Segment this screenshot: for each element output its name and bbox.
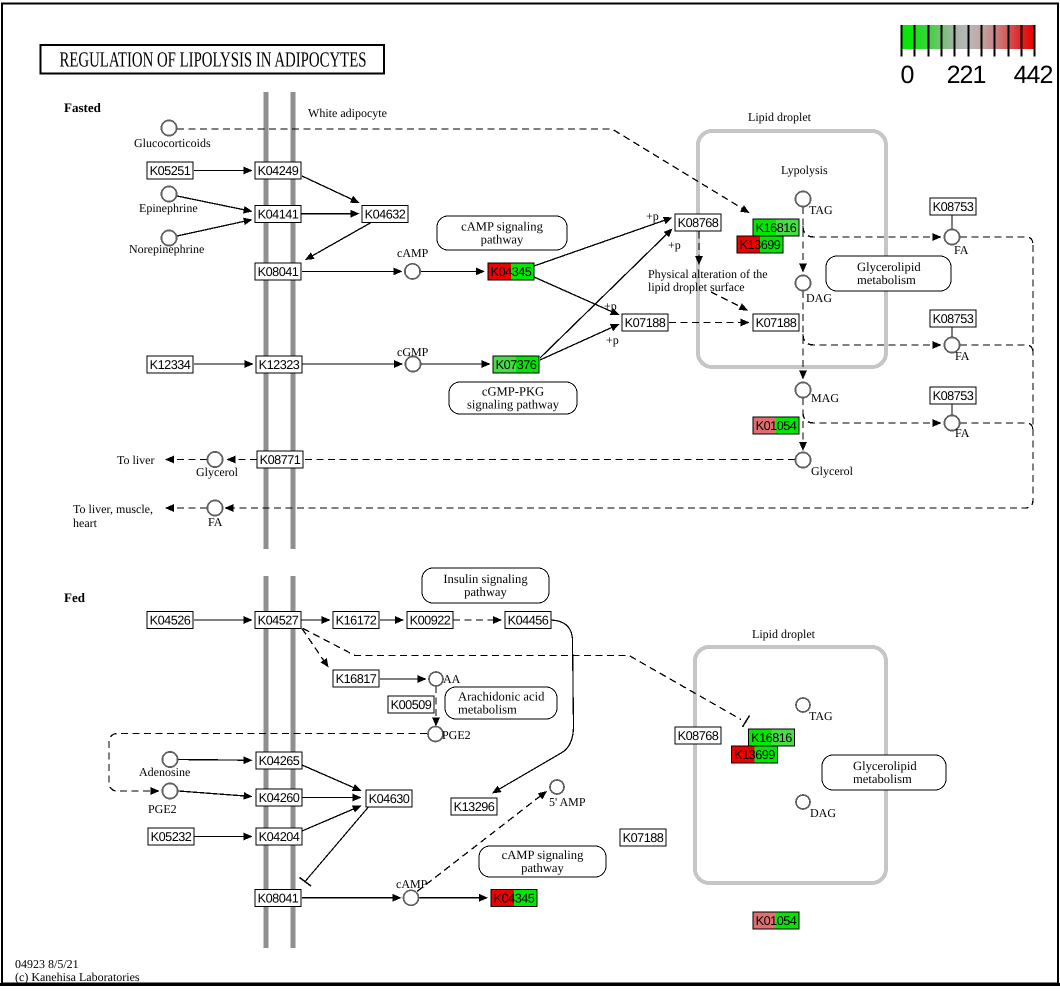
- dashed arrow Glycerol to liver: [165, 456, 207, 464]
- compound MAG: [795, 382, 810, 397]
- compound cAMP fed: [404, 890, 419, 905]
- svg-text:Lypolysis: Lypolysis: [781, 163, 828, 177]
- svg-text:cAMP: cAMP: [397, 246, 429, 260]
- compound DAG fed: [796, 795, 810, 809]
- svg-text:K07376: K07376: [496, 358, 537, 372]
- legend tick marks: [902, 25, 1035, 57]
- inhibit line K04630 to K08041: [300, 808, 369, 887]
- dashed arrow K04527 to K16817: [302, 629, 329, 668]
- dashed arrow AA to PGE2: [432, 686, 440, 727]
- svg-text:lipid droplet surface: lipid droplet surface: [648, 280, 745, 294]
- lipid droplet outline fasted: [698, 131, 886, 367]
- gene box K08768 fed: [675, 727, 721, 744]
- compound Glucocorticoids: [161, 120, 176, 135]
- membrane bar lower-right: [291, 576, 296, 948]
- svg-text:Glucocorticoids: Glucocorticoids: [134, 136, 211, 150]
- dashed arrow TAG to DAG: [799, 207, 807, 273]
- gene box K13699 fed expression red-green: [732, 746, 778, 763]
- arrow K12334 to K12323: [194, 360, 254, 368]
- pathway box Glycerolipid metabolism fasted: [826, 256, 951, 291]
- arrow K16172 to K00922: [380, 616, 404, 624]
- dashed arrow DAG to MAG: [799, 291, 807, 380]
- arrow K04249 to K04632: [302, 176, 360, 203]
- gene box K12323: [256, 356, 302, 373]
- svg-text:K12323: K12323: [259, 358, 300, 372]
- svg-text:PGE2: PGE2: [148, 802, 177, 816]
- compound FA left: [207, 500, 222, 515]
- svg-text:Fed: Fed: [64, 590, 86, 605]
- dashed arrow surface text to K07188: [711, 292, 748, 311]
- svg-text:AA: AA: [443, 672, 461, 686]
- svg-text:cAMP signaling: cAMP signaling: [461, 220, 543, 234]
- svg-text:To liver: To liver: [117, 453, 154, 467]
- svg-text:cAMP signaling: cAMP signaling: [502, 848, 584, 862]
- dashed line Glycerol to K08771: [304, 459, 796, 461]
- compound TAG fed: [796, 698, 810, 712]
- arrow cAMP to K04345 fed: [420, 894, 489, 902]
- svg-text:TAG: TAG: [809, 709, 833, 723]
- gene box K04526: [147, 612, 193, 629]
- dashed arrow Glucocorticoids to K16816: [177, 129, 750, 213]
- svg-text:Glycerol: Glycerol: [811, 464, 854, 478]
- membrane bar upper-right: [291, 92, 296, 549]
- arrow K04345 to K07188 phospho: [534, 277, 620, 315]
- compound PGE2 lower: [162, 783, 177, 798]
- svg-text:K16817: K16817: [336, 672, 377, 686]
- gene box K13699 expression red-green: [737, 236, 783, 253]
- dashed rail right side to FA export: [225, 245, 1034, 512]
- arrow K04265 to K04630: [302, 765, 362, 791]
- dashed arrow cAMP to 5AMP: [417, 791, 547, 892]
- arrow K07376 to K08768 phospho: [540, 229, 673, 359]
- compound PGE2 upper: [428, 727, 443, 742]
- arrow Epinephrine to K04141: [177, 196, 253, 214]
- svg-text:Glycerolipid: Glycerolipid: [857, 260, 921, 274]
- svg-text:heart: heart: [73, 516, 98, 530]
- svg-text:K00509: K00509: [391, 698, 432, 712]
- compound cGMP: [405, 356, 420, 371]
- svg-text:K04527: K04527: [258, 614, 299, 628]
- gene box K08041 fed: [255, 889, 301, 906]
- gene box K16817: [333, 670, 379, 687]
- svg-text:K08768: K08768: [678, 729, 719, 743]
- arrow K04526 to K04527: [194, 616, 253, 624]
- svg-text:Glycerol: Glycerol: [196, 465, 239, 479]
- svg-text:To liver, muscle,: To liver, muscle,: [73, 502, 153, 516]
- connector K08753 to FA 1: [951, 216, 953, 231]
- arrow Norepinephrine to K04141: [177, 218, 253, 236]
- svg-text:K16172: K16172: [336, 614, 377, 628]
- svg-text:REGULATION OF LIPOLYSIS IN: REGULATION OF LIPOLYSIS IN ADIPOCYTES: [60, 48, 367, 72]
- gene box K16172: [333, 612, 379, 629]
- svg-text:K04265: K04265: [259, 754, 300, 768]
- gene box K00922: [407, 612, 453, 629]
- svg-text:PGE2: PGE2: [442, 728, 471, 742]
- svg-text:K04345: K04345: [491, 265, 532, 279]
- arrow K04141 to K04632: [301, 210, 360, 218]
- gene box K04345 expression red-green: [488, 263, 534, 280]
- gene box K04260: [256, 789, 302, 806]
- dashed arrow DAG branch to FA 2: [803, 334, 942, 349]
- svg-text:pathway: pathway: [464, 585, 507, 599]
- svg-text:K13699: K13699: [740, 238, 781, 252]
- svg-text:FA: FA: [955, 426, 970, 440]
- compound 5AMP: [550, 780, 564, 794]
- gene box K16816 expression green: [753, 219, 799, 236]
- compound FA right 1: [944, 229, 959, 244]
- pathway box cGMP-PKG signaling pathway: [449, 382, 577, 414]
- svg-text:K13699: K13699: [734, 748, 775, 762]
- pathway title box: [41, 45, 385, 74]
- arrow K04204 to K04630: [302, 806, 362, 832]
- compound TAG: [795, 191, 810, 206]
- arrow K12323 to cGMP: [302, 360, 403, 368]
- svg-text:cAMP: cAMP: [396, 877, 428, 891]
- svg-text:K04345: K04345: [494, 891, 535, 905]
- compound FA right 3: [944, 415, 959, 430]
- svg-text:Norepinephrine: Norepinephrine: [129, 242, 204, 256]
- svg-text:Lipid droplet: Lipid droplet: [752, 627, 816, 641]
- dashed arrow K07188 to K07188: [669, 319, 750, 327]
- svg-text:MAG: MAG: [811, 391, 839, 405]
- arrow K05251 to K04249: [194, 167, 253, 175]
- svg-text:DAG: DAG: [810, 806, 836, 820]
- svg-text:K08041: K08041: [258, 891, 299, 905]
- arrow K05232 to K04204: [194, 833, 253, 841]
- arrow cAMP to K04345: [421, 268, 485, 276]
- gene box K04527: [255, 612, 301, 629]
- svg-text:pathway: pathway: [481, 233, 524, 247]
- arrow K04632 to K08041: [305, 222, 372, 260]
- dashed arrow MAG to Glycerol: [799, 398, 807, 451]
- svg-text:0: 0: [901, 61, 914, 89]
- svg-text:+p: +p: [604, 299, 617, 313]
- gene box K01054 fed expression salmon-green: [753, 912, 799, 929]
- svg-text:K00922: K00922: [410, 614, 451, 628]
- gene box K07188 right: [753, 314, 799, 331]
- svg-text:+p: +p: [646, 209, 659, 223]
- gene box K16816 fed expression green: [749, 729, 795, 746]
- svg-text:K04141: K04141: [258, 208, 299, 222]
- gene box K04204: [256, 828, 302, 845]
- svg-text:Physical alteration of the: Physical alteration of the: [648, 267, 768, 281]
- svg-text:Insulin signaling: Insulin signaling: [443, 572, 528, 586]
- gene box K04249: [255, 162, 301, 179]
- arrow cGMP to K07376: [422, 360, 491, 368]
- svg-text:+p: +p: [668, 238, 681, 252]
- pathway box cAMP signaling pathway: [437, 216, 567, 250]
- connector K08753 to FA 3: [951, 405, 953, 417]
- legend gradient bar: [901, 25, 1034, 49]
- svg-text:FA: FA: [208, 515, 223, 529]
- svg-text:K04526: K04526: [150, 614, 191, 628]
- gene box K04345 fed expression red-green: [491, 889, 537, 906]
- compound Glycerol left: [207, 452, 222, 467]
- svg-text:TAG: TAG: [809, 203, 833, 217]
- dashed line FA 3 to right rail: [960, 423, 1033, 431]
- gene box K07188 fed: [620, 829, 666, 846]
- gene box K13296: [451, 798, 497, 815]
- gene box K05232: [148, 828, 194, 845]
- svg-text:pathway: pathway: [521, 861, 564, 875]
- dashed arrow K08768 to lipid droplet surface: [695, 232, 703, 266]
- svg-text:K13296: K13296: [454, 800, 495, 814]
- svg-text:K05232: K05232: [151, 830, 192, 844]
- svg-text:+p: +p: [606, 333, 619, 347]
- svg-text:White adipocyte: White adipocyte: [308, 106, 387, 120]
- svg-text:FA: FA: [954, 243, 969, 257]
- svg-text:K04260: K04260: [259, 791, 300, 805]
- dashed line FA 1 to right rail: [960, 237, 1033, 245]
- gene box K07376 expression green: [493, 356, 539, 373]
- compound FA right 2: [944, 337, 959, 352]
- dashed arrow TAG branch to FA 1: [803, 226, 942, 241]
- svg-text:signaling pathway: signaling pathway: [467, 398, 560, 412]
- dashed arrow FA to tissues: [165, 504, 207, 512]
- svg-text:Arachidonic acid: Arachidonic acid: [458, 690, 545, 704]
- pathway box Insulin signaling pathway: [422, 568, 549, 603]
- svg-text:K04204: K04204: [259, 830, 300, 844]
- membrane bar lower-left: [264, 576, 269, 948]
- inhibition tee at fed lipid droplet: [743, 716, 750, 728]
- svg-text:Glycerolipid: Glycerolipid: [853, 759, 917, 773]
- svg-text:metabolism: metabolism: [857, 273, 916, 287]
- svg-text:442: 442: [1014, 61, 1053, 89]
- compound AA: [429, 672, 443, 686]
- svg-text:DAG: DAG: [806, 291, 832, 305]
- svg-text:Lipid droplet: Lipid droplet: [748, 110, 812, 124]
- dashed arrow MAG branch to FA 3: [803, 412, 942, 427]
- pathway box Arachidonic acid metabolism: [445, 687, 557, 719]
- gene box K00509: [388, 696, 434, 713]
- svg-text:K08771: K08771: [260, 453, 301, 467]
- dashed line FA 2 to right rail: [960, 345, 1033, 353]
- gene box K07188 left: [622, 314, 668, 331]
- gene box K04632: [362, 206, 408, 223]
- svg-text:K08753: K08753: [933, 389, 974, 403]
- gene box K01054 expression salmon-green: [753, 417, 799, 434]
- gene box K04456: [505, 612, 551, 629]
- svg-text:K05251: K05251: [150, 164, 191, 178]
- gene box K04265: [256, 752, 302, 769]
- gene box K08753 top: [930, 198, 976, 215]
- compound Epinephrine: [161, 186, 176, 201]
- svg-text:K01054: K01054: [756, 914, 797, 928]
- dashed arrow K08771 to Glycerol left: [227, 456, 258, 464]
- svg-text:K08768: K08768: [678, 216, 719, 230]
- svg-text:K08753: K08753: [933, 312, 974, 326]
- svg-text:metabolism: metabolism: [853, 772, 912, 786]
- svg-text:K16816: K16816: [756, 221, 797, 235]
- svg-text:K01054: K01054: [756, 419, 797, 433]
- membrane bar upper-left: [264, 92, 269, 549]
- compound Adenosine: [162, 752, 177, 767]
- gene box K08753 bottom: [930, 387, 976, 404]
- arrow K16817 to AA: [380, 675, 427, 683]
- svg-text:K16816: K16816: [751, 731, 792, 745]
- dashed arrow K00922 to K04456: [453, 616, 502, 624]
- compound DAG: [795, 275, 810, 290]
- arrow K04345 to K08768 phospho: [534, 217, 673, 266]
- svg-text:04923 8/5/21: 04923 8/5/21: [15, 957, 79, 971]
- arrow K08041 to cAMP: [302, 268, 403, 276]
- gene box K04141: [255, 206, 301, 223]
- svg-text:K07188: K07188: [623, 831, 664, 845]
- gene box K04630: [366, 790, 412, 807]
- svg-text:FA: FA: [955, 349, 970, 363]
- arrow K07376 to K07188 phospho: [540, 324, 620, 360]
- lipid droplet outline fed: [695, 647, 886, 883]
- gene box K05251: [147, 162, 193, 179]
- svg-text:K07188: K07188: [756, 316, 797, 330]
- svg-text:Adenosine: Adenosine: [139, 765, 190, 779]
- line K04456 to K13296 via rail: [492, 620, 574, 794]
- gene box K08771: [257, 451, 303, 468]
- svg-text:K04630: K04630: [369, 792, 410, 806]
- svg-text:metabolism: metabolism: [458, 703, 517, 717]
- arrow K04527 to K16172: [301, 616, 331, 624]
- pathway box Glycerolipid metabolism fed: [822, 755, 946, 790]
- compound Norepinephrine: [161, 230, 176, 245]
- svg-text:K07188: K07188: [625, 316, 666, 330]
- svg-text:K04456: K04456: [508, 614, 549, 628]
- svg-text:221: 221: [947, 61, 986, 89]
- arrow Adenosine to K04265: [179, 756, 253, 764]
- svg-text:K08041: K08041: [258, 265, 299, 279]
- connector K08753 to FA 2: [951, 328, 953, 339]
- arrow PGE2 to K04260: [179, 791, 253, 800]
- gene box K08753 middle: [930, 310, 976, 327]
- dashed inhibit K04527 to fed lipid droplet: [303, 629, 741, 720]
- arrow K04260 to K04630: [302, 794, 362, 802]
- svg-text:cGMP: cGMP: [397, 345, 429, 359]
- gene box K08768: [675, 214, 721, 231]
- gene box K12334: [147, 356, 193, 373]
- svg-text:K08753: K08753: [933, 200, 974, 214]
- dashed arrow PGE2 out and back to PGE2 receptor side: [109, 734, 427, 795]
- pathway box cAMP signaling pathway fed: [479, 846, 606, 877]
- svg-text:cGMP-PKG: cGMP-PKG: [482, 385, 544, 399]
- svg-text:(c) Kanehisa Laboratories: (c) Kanehisa Laboratories: [15, 970, 140, 984]
- gene box K08041: [255, 263, 301, 280]
- svg-text:5' AMP: 5' AMP: [549, 795, 586, 809]
- svg-text:Epinephrine: Epinephrine: [139, 201, 198, 215]
- arrow K08041 to cAMP fed: [302, 894, 402, 902]
- svg-text:K12334: K12334: [150, 358, 191, 372]
- compound Glycerol right: [795, 452, 810, 467]
- svg-text:K04632: K04632: [365, 208, 406, 222]
- svg-text:K04249: K04249: [258, 164, 299, 178]
- compound cAMP: [405, 264, 420, 279]
- svg-text:Fasted: Fasted: [64, 100, 102, 115]
